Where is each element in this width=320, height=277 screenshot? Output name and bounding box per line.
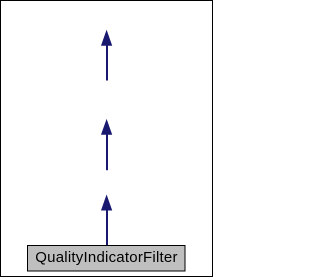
edge 3 arrowhead (bottom) — [101, 195, 111, 210]
edge 2 wire — [106, 134, 108, 170]
border frame — [1, 1, 213, 277]
node box QualityIndicatorFilter — [28, 246, 186, 272]
svg-text:QualityIndicatorFilter: QualityIndicatorFilter — [35, 249, 177, 266]
edge 1 arrowhead (top) — [101, 31, 111, 46]
inheritance diagram canvas — [0, 0, 213, 277]
edge 1 wire — [106, 45, 108, 81]
edge 3 wire — [106, 210, 108, 246]
edge 2 arrowhead (middle) — [101, 120, 111, 135]
